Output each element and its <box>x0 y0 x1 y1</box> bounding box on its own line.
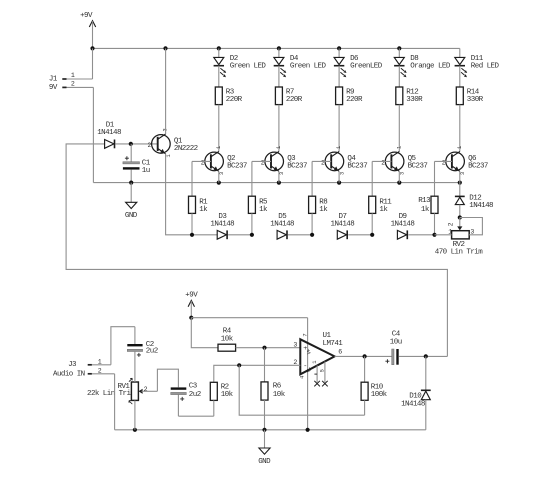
svg-text:10u: 10u <box>390 338 402 346</box>
trimpot RV2 470 Lin Trim <box>459 218 461 228</box>
wire Q3 base to resistor R5 <box>252 160 271 162</box>
resistor R10 100k <box>364 356 366 382</box>
wire R2 bottom to C3 <box>178 415 213 417</box>
svg-text:1N4148: 1N4148 <box>97 129 121 137</box>
svg-text:R6: R6 <box>273 382 282 390</box>
svg-text:1k: 1k <box>199 206 208 214</box>
svg-text:3: 3 <box>460 172 466 175</box>
wire diode chain <box>192 234 217 236</box>
svg-text:1: 1 <box>448 229 452 236</box>
resistor R5 1k <box>248 196 255 213</box>
svg-text:5: 5 <box>320 369 326 372</box>
LED D11 Red LED <box>459 48 461 57</box>
wire Q5 base to resistor R11 <box>372 160 391 162</box>
wire op-amp output <box>335 355 392 357</box>
svg-text:GND: GND <box>125 212 138 220</box>
diode D9 1N4148 <box>397 230 406 239</box>
capacitor C2 2u2 <box>134 327 136 344</box>
diode D3 1N4148 <box>217 230 226 239</box>
resistor R8 1k <box>309 196 316 213</box>
capacitor C4 10u <box>392 349 394 365</box>
resistor R2 10k <box>210 382 217 400</box>
svg-text:GND: GND <box>258 458 271 466</box>
svg-text:LM741: LM741 <box>323 340 344 348</box>
svg-text:1N4148: 1N4148 <box>270 221 294 229</box>
node: rail junction dots <box>90 46 94 50</box>
resistor R14 330R <box>459 66 461 87</box>
resistor R4 10k <box>218 344 236 351</box>
svg-text:1: 1 <box>71 72 75 79</box>
svg-text:470 Lin Trim: 470 Lin Trim <box>435 248 483 256</box>
svg-text:4: 4 <box>299 376 305 379</box>
svg-text:6: 6 <box>338 348 342 355</box>
svg-text:V+: V+ <box>307 349 313 355</box>
svg-text:100k: 100k <box>371 391 388 399</box>
wire op-amp pin7/pin4 vertical <box>307 318 309 430</box>
svg-text:1N4148: 1N4148 <box>210 221 234 229</box>
power +9V (bottom) <box>188 300 194 306</box>
svg-text:D1: D1 <box>106 121 115 129</box>
wire R4 to pin 3 <box>236 347 301 349</box>
svg-text:1: 1 <box>276 146 282 149</box>
svg-text:1k: 1k <box>319 206 328 214</box>
svg-text:R13: R13 <box>418 197 431 205</box>
svg-text:1N4148: 1N4148 <box>469 202 493 210</box>
transistor Q6 BC237 <box>446 152 465 171</box>
capacitor C1 1u <box>130 144 132 162</box>
wire Q6 emitter to rail <box>459 171 461 182</box>
resistor R13 1k <box>431 196 438 213</box>
svg-text:Audio IN: Audio IN <box>53 371 85 379</box>
svg-text:Green LED: Green LED <box>290 63 327 71</box>
svg-text:7: 7 <box>302 334 308 337</box>
svg-text:2: 2 <box>98 367 102 374</box>
op-amp pin 1 offset null stub <box>316 365 318 382</box>
svg-text:BC237: BC237 <box>227 163 247 171</box>
svg-text:3: 3 <box>293 342 297 349</box>
svg-text:V-: V- <box>307 367 313 373</box>
svg-text:1: 1 <box>312 361 318 364</box>
diode D5 1N4148 <box>277 230 286 239</box>
wire ground rail (bottom section) <box>115 429 426 431</box>
transistor Q5 BC237 <box>385 152 404 171</box>
svg-text:1k: 1k <box>259 206 268 214</box>
transistor Q1 2N2222 <box>152 135 171 154</box>
resistor R6 10k <box>264 348 266 382</box>
svg-text:J1: J1 <box>49 75 58 83</box>
op-amp pin 5 offset null stub <box>324 362 326 383</box>
wire Q2 emitter to rail <box>218 171 220 182</box>
svg-text:1u: 1u <box>142 167 150 175</box>
svg-text:GreenLED: GreenLED <box>350 63 383 71</box>
connector J3 Audio IN <box>88 364 92 366</box>
svg-text:J3: J3 <box>68 361 77 369</box>
svg-text:1: 1 <box>396 146 402 149</box>
wire feedback from amp output to D1 anode <box>66 144 447 357</box>
svg-text:1N4148: 1N4148 <box>401 400 425 408</box>
svg-text:R4: R4 <box>223 328 232 336</box>
wire C2 to RV1 <box>134 352 136 383</box>
wire Q6 base to resistor R13 <box>435 160 452 162</box>
svg-text:Green LED: Green LED <box>230 63 267 71</box>
wire emitter/ground rail (top section) <box>93 182 459 184</box>
svg-text:BC237: BC237 <box>468 163 488 171</box>
wire Q4 base to resistor R8 <box>312 160 331 162</box>
svg-text:1k: 1k <box>421 206 430 214</box>
op-amp U1 LM741 <box>300 339 334 374</box>
wire RV1 wiper to C3 <box>157 369 178 391</box>
wire op-amp pin 2 to R2 <box>214 365 300 382</box>
LED D6 GreenLED <box>338 48 340 57</box>
transistor Q2 BC237 <box>205 152 224 171</box>
svg-text:1k: 1k <box>379 206 388 214</box>
wire +9V rail <box>93 47 460 49</box>
svg-text:220R: 220R <box>226 96 243 104</box>
svg-text:2: 2 <box>144 386 148 393</box>
node: chain junction dots <box>190 233 194 237</box>
svg-text:BC237: BC237 <box>287 163 307 171</box>
svg-text:BC237: BC237 <box>347 163 367 171</box>
node D1 cathode / C1 / Q1 base <box>129 142 133 146</box>
svg-text:22k Lin Trim: 22k Lin Trim <box>87 390 135 398</box>
svg-text:330R: 330R <box>467 96 484 104</box>
svg-text:220R: 220R <box>286 96 303 104</box>
resistor R3 220R <box>218 66 220 87</box>
svg-text:2: 2 <box>71 81 75 88</box>
resistor R7 220R <box>278 66 280 87</box>
resistor R12 330R <box>398 66 400 87</box>
svg-text:3: 3 <box>219 172 225 175</box>
svg-text:10k: 10k <box>273 391 286 399</box>
diode D10 1N4148 <box>425 356 427 390</box>
svg-text:9V: 9V <box>49 84 58 92</box>
svg-text:1: 1 <box>457 146 463 149</box>
transistor Q3 BC237 <box>265 152 284 171</box>
wire +9V to op-amp pin 7 <box>191 317 307 319</box>
ground symbol GND (bottom) <box>264 430 266 448</box>
LED D2 Green LED <box>218 48 220 57</box>
svg-text:C4: C4 <box>392 331 401 339</box>
svg-text:2u2: 2u2 <box>189 391 201 399</box>
svg-text:+9V: +9V <box>80 12 93 20</box>
svg-text:Orange LED: Orange LED <box>410 63 451 71</box>
svg-text:10k: 10k <box>221 391 234 399</box>
svg-text:1: 1 <box>336 146 342 149</box>
wire Q5 emitter to rail <box>398 171 400 182</box>
LED D8 Orange LED <box>398 48 400 57</box>
wire RV1 bottom to ground rail <box>134 400 136 429</box>
transistor Q4 BC237 <box>325 152 344 171</box>
svg-text:3: 3 <box>400 172 406 175</box>
node: rail2 dots <box>129 181 133 185</box>
resistor R1 1k <box>189 196 196 213</box>
svg-text:1: 1 <box>98 359 102 366</box>
svg-text:1N4148: 1N4148 <box>331 221 355 229</box>
diode D7 1N4148 <box>337 230 346 239</box>
svg-text:+9V: +9V <box>185 292 198 300</box>
svg-text:1: 1 <box>216 146 222 149</box>
power +9V (top) <box>89 21 95 27</box>
wire Q1 emitter to diode chain <box>166 154 192 235</box>
resistor R11 1k <box>369 196 376 213</box>
capacitor C3 2u2 <box>177 395 179 417</box>
resistor R9 220R <box>338 66 340 87</box>
wire feedback pin2 to R10 <box>239 365 364 415</box>
wire C4 to feedback corner <box>399 355 448 357</box>
svg-text:10k: 10k <box>221 336 234 344</box>
diode D1 1N4148 <box>105 140 114 149</box>
svg-text:2u2: 2u2 <box>146 348 158 356</box>
svg-text:1N4148: 1N4148 <box>391 221 415 229</box>
svg-text:Red LED: Red LED <box>471 63 500 71</box>
svg-text:3: 3 <box>279 172 285 175</box>
ground symbol GND (top) <box>130 183 132 203</box>
svg-text:3: 3 <box>470 229 474 236</box>
connector J1 <box>62 78 66 80</box>
svg-text:C3: C3 <box>189 383 198 391</box>
wire Q2 base to resistor R1 <box>192 160 211 162</box>
svg-text:BC237: BC237 <box>408 163 428 171</box>
wire Q3 emitter to rail <box>278 171 280 182</box>
LED D4 Green LED <box>278 48 280 57</box>
svg-text:330R: 330R <box>406 96 423 104</box>
svg-text:1: 1 <box>166 155 172 158</box>
svg-text:220R: 220R <box>346 96 363 104</box>
wire Q4 emitter to rail <box>338 171 340 182</box>
svg-text:3: 3 <box>339 172 345 175</box>
svg-text:2N2222: 2N2222 <box>174 145 198 153</box>
diode D12 1N4148 <box>459 183 461 197</box>
wire +9V to R4 <box>191 318 218 348</box>
